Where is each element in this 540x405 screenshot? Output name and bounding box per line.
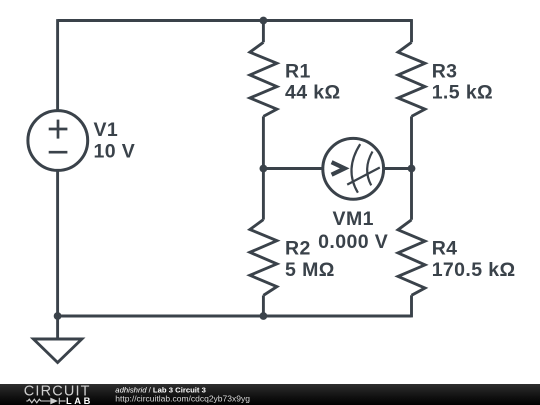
svg-text:VM1: VM1 xyxy=(333,208,374,230)
svg-text:LAB: LAB xyxy=(66,396,93,405)
svg-text:5 MΩ: 5 MΩ xyxy=(285,259,335,281)
svg-text:R1: R1 xyxy=(285,60,311,82)
svg-text:0.000 V: 0.000 V xyxy=(318,231,388,253)
svg-text:44 kΩ: 44 kΩ xyxy=(285,82,341,104)
svg-text:1.5 kΩ: 1.5 kΩ xyxy=(432,82,493,104)
svg-text:http://circuitlab.com/cdcq2yb7: http://circuitlab.com/cdcq2yb73x9yg xyxy=(115,394,250,404)
svg-text:R4: R4 xyxy=(432,238,458,260)
svg-text:170.5 kΩ: 170.5 kΩ xyxy=(432,259,516,281)
svg-text:R2: R2 xyxy=(285,238,311,260)
svg-text:10 V: 10 V xyxy=(94,140,136,162)
svg-text:V1: V1 xyxy=(94,119,119,141)
svg-text:R3: R3 xyxy=(432,60,458,82)
